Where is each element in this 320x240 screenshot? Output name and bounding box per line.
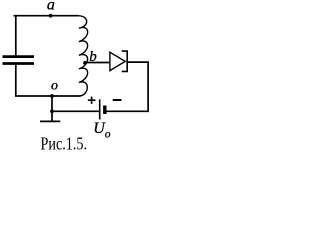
wire: bottom horizontal (left corner to coil bottom) [15, 95, 81, 97]
node o [50, 94, 54, 98]
wire: top horizontal (left corner to coil top) [14, 15, 79, 17]
svg-text:Рис.1.5.: Рис.1.5. [41, 134, 88, 154]
junction dot (battery tap) [50, 109, 54, 113]
wire: right vertical [147, 62, 149, 112]
wire: battery row right segment [107, 110, 149, 112]
battery U0 negative plate (short thick) [103, 106, 106, 115]
node b [83, 61, 87, 65]
wire: diode to right corner [127, 61, 148, 63]
wire: node b to diode [85, 62, 110, 64]
diode VD tunnel triangle (anode) [110, 52, 125, 70]
node a [49, 14, 53, 18]
diode VD cathode bracket [122, 51, 128, 71]
svg-text:b: b [89, 49, 97, 65]
svg-text:a: a [47, 0, 55, 14]
label - (battery polarity) [113, 99, 122, 101]
ground bar [40, 120, 60, 122]
capacitor C top plate [3, 55, 35, 58]
svg-text:o: o [105, 129, 111, 141]
wire: left vertical upper (to capacitor) [15, 15, 17, 55]
wire: vertical from node o down to ground [51, 96, 53, 121]
battery U0 positive plate (long) [99, 99, 101, 119]
wire: battery row left segment [52, 110, 99, 112]
capacitor C bottom plate [3, 62, 35, 65]
label + (battery polarity) [88, 97, 96, 104]
inductor L coil [78, 16, 87, 96]
wire: left vertical lower (capacitor to bottom) [15, 65, 17, 96]
svg-text:o: o [51, 79, 58, 94]
